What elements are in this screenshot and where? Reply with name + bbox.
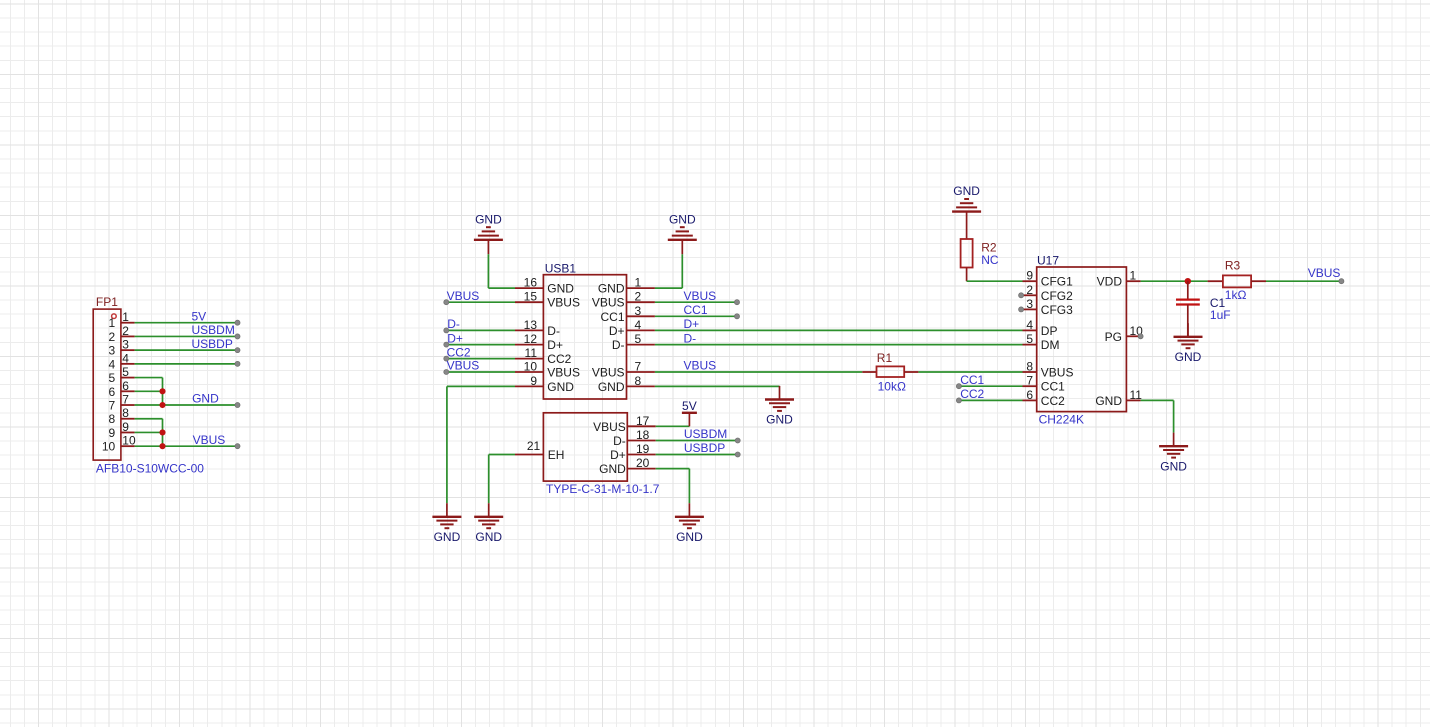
U17 pin 5 (DM): [1023, 332, 1060, 352]
svg-text:7: 7: [122, 393, 129, 407]
svg-text:6: 6: [122, 379, 129, 393]
open end dot VBUS: [1339, 279, 1344, 284]
wire FP1 pin2 USBDM: [135, 335, 238, 337]
ground above R2: [952, 184, 981, 239]
svg-text:GND: GND: [192, 392, 219, 406]
wire FP1 pins5-7 vertical: [162, 378, 164, 405]
svg-text:3: 3: [109, 344, 116, 358]
svg-text:CC2: CC2: [1041, 394, 1065, 408]
wire CC2 to USB1 pin11: [446, 358, 515, 360]
svg-text:19: 19: [636, 442, 650, 456]
connector USB1 (upper section): [515, 261, 655, 399]
wire FP1 pin3 USBDP: [135, 349, 238, 351]
svg-text:CFG2: CFG2: [1041, 289, 1073, 303]
svg-text:8: 8: [109, 412, 116, 426]
wire D+ to USB1 pin12: [446, 344, 515, 346]
wire USB1 pin18 USBDM: [656, 440, 738, 442]
open end dot VBUS: [235, 444, 240, 449]
svg-text:USBDP: USBDP: [192, 337, 233, 351]
svg-text:4: 4: [109, 357, 116, 371]
svg-text:D-: D-: [612, 338, 625, 352]
svg-text:2: 2: [1026, 283, 1033, 297]
svg-text:CC1: CC1: [600, 310, 624, 324]
open end dot USBDM: [235, 334, 240, 339]
svg-text:GND: GND: [766, 413, 793, 427]
svg-text:D-: D-: [684, 331, 697, 345]
power flag 5V: [682, 399, 697, 426]
wire FP1 pin7 GND: [135, 404, 238, 406]
wire USB1 pin1 to ground: [655, 254, 682, 288]
svg-text:AFB10-S10WCC-00: AFB10-S10WCC-00: [96, 462, 204, 476]
svg-text:USBDP: USBDP: [684, 441, 725, 455]
wire R1 to U17 VBUS: [918, 371, 1022, 373]
svg-text:5: 5: [635, 332, 642, 346]
U17 pin 4 (DP): [1023, 318, 1058, 338]
junction FP1 pin7: [159, 402, 165, 408]
svg-text:11: 11: [525, 346, 538, 360]
FP1 pin 6: [109, 379, 135, 399]
svg-text:10: 10: [122, 434, 136, 448]
svg-text:5V: 5V: [682, 399, 697, 413]
svg-text:GND: GND: [599, 462, 626, 476]
FP1 pin 1: [109, 310, 135, 330]
open end dot CC1: [956, 384, 961, 389]
FP1 pin 10: [102, 434, 136, 454]
svg-text:9: 9: [1026, 269, 1033, 283]
open end dot GND: [235, 402, 240, 407]
svg-text:5: 5: [1026, 332, 1033, 346]
svg-text:6: 6: [109, 385, 116, 399]
svg-text:16: 16: [524, 276, 538, 290]
wire CC1 to U17 pin7: [959, 385, 1023, 387]
svg-text:11: 11: [1130, 388, 1143, 402]
USB1 pin 13 (D-): [515, 318, 560, 338]
wire FP1 pin6: [135, 390, 163, 392]
svg-text:4: 4: [635, 318, 642, 332]
capacitor C1: [1176, 281, 1226, 337]
svg-text:5: 5: [109, 371, 116, 385]
wire USB1 pin4 D+ to U17 DP: [655, 329, 1023, 331]
USB1 pin 10 (VBUS): [515, 360, 580, 380]
svg-text:3: 3: [122, 338, 129, 352]
svg-text:3: 3: [635, 304, 642, 318]
svg-text:GND: GND: [434, 530, 461, 544]
svg-text:VBUS: VBUS: [684, 289, 717, 303]
open end dot USBDM: [735, 438, 740, 443]
wire USB1 pin3 CC1: [655, 315, 737, 317]
svg-text:CC2: CC2: [960, 387, 984, 401]
svg-text:GND: GND: [547, 282, 574, 296]
wire USB1 pin19 USBDP: [656, 454, 738, 456]
svg-text:VBUS: VBUS: [684, 359, 717, 373]
svg-text:GND: GND: [676, 530, 703, 544]
U17 pin 11 (GND): [1095, 388, 1142, 408]
svg-text:VBUS: VBUS: [447, 289, 480, 303]
wire FP1 pin4: [135, 363, 238, 365]
open end dot VBUS: [444, 369, 449, 374]
USB1 pin 1 (GND): [598, 276, 655, 296]
open end dot D+: [444, 342, 449, 347]
open end dot VBUS: [734, 300, 739, 305]
svg-text:20: 20: [636, 456, 650, 470]
svg-text:D+: D+: [610, 448, 626, 462]
svg-text:9: 9: [530, 374, 537, 388]
svg-text:CFG3: CFG3: [1041, 303, 1073, 317]
svg-text:DM: DM: [1041, 338, 1060, 352]
svg-text:GND: GND: [1095, 394, 1122, 408]
resistor R1: [862, 351, 918, 377]
svg-text:VBUS: VBUS: [193, 433, 226, 447]
junction FP1 pin10: [159, 443, 165, 449]
svg-text:DP: DP: [1041, 324, 1058, 338]
ground bottom-left-1: [432, 503, 461, 544]
svg-text:2: 2: [122, 324, 129, 338]
connector USB1 (shell section): [515, 413, 656, 481]
USB1 pin 16 (GND): [515, 276, 574, 296]
svg-text:7: 7: [109, 399, 116, 413]
junction FP1 pin6: [159, 388, 165, 394]
svg-text:12: 12: [524, 332, 538, 346]
svg-text:1: 1: [122, 310, 129, 324]
svg-text:GND: GND: [475, 530, 502, 544]
svg-text:VBUS: VBUS: [592, 366, 625, 380]
svg-text:GND: GND: [1175, 350, 1202, 364]
USB1 pin 8 (GND): [598, 374, 655, 394]
svg-text:VBUS: VBUS: [547, 366, 580, 380]
wire FP1 pin5: [135, 377, 163, 379]
ground far-right: [1159, 433, 1188, 474]
USB1 pin 4 (D+): [609, 318, 655, 338]
svg-text:8: 8: [635, 374, 642, 388]
USB1 pin 11 (CC2): [515, 346, 572, 366]
svg-text:USBDM: USBDM: [192, 323, 235, 337]
USB1 pin 7 (VBUS): [592, 360, 655, 380]
svg-text:PG: PG: [1105, 330, 1122, 344]
U17 pin 10 (PG): [1105, 324, 1144, 344]
ground top-left: [474, 212, 503, 254]
wire VBUS to USB1 pin15: [446, 301, 515, 303]
svg-text:GND: GND: [1160, 459, 1187, 473]
svg-text:NC: NC: [981, 253, 999, 267]
FP1 pin 4: [109, 351, 135, 371]
svg-text:VBUS: VBUS: [593, 420, 626, 434]
FP1 pin 2: [109, 324, 135, 344]
USB1 pin 19 (D+): [610, 442, 656, 462]
FP1 pin 9: [109, 420, 135, 440]
wire FP1 pin1 to 5V: [135, 322, 238, 324]
open end dot CC2: [956, 398, 961, 403]
svg-text:VBUS: VBUS: [1041, 366, 1074, 380]
svg-text:CC1: CC1: [960, 373, 984, 387]
USB1 pin 18 (D-): [613, 428, 656, 448]
FP1 pin 5: [109, 365, 135, 385]
wire VBUS to USB1 pin10: [446, 371, 515, 373]
svg-text:3: 3: [1026, 297, 1033, 311]
svg-text:D-: D-: [613, 434, 626, 448]
svg-text:VBUS: VBUS: [1308, 266, 1341, 280]
svg-text:GND: GND: [953, 184, 980, 198]
wire USB1 pin9 to ground: [447, 386, 515, 503]
svg-text:8: 8: [1026, 360, 1033, 374]
wire GND to USB1 pin16: [488, 254, 515, 288]
FP1 pin 8: [109, 406, 135, 426]
junction VDD/C1: [1185, 278, 1191, 284]
svg-text:10kΩ: 10kΩ: [878, 380, 906, 394]
svg-text:1kΩ: 1kΩ: [1225, 288, 1247, 302]
svg-text:1: 1: [1130, 269, 1137, 283]
wire R2 to U17 CFG1: [967, 268, 1023, 282]
svg-text:4: 4: [1026, 318, 1033, 332]
wire FP1 pins8-10 vertical: [162, 419, 164, 446]
FP1 pin 3: [109, 338, 135, 358]
svg-text:VBUS: VBUS: [447, 359, 480, 373]
U17 pin 6 (CC2): [1023, 388, 1066, 408]
svg-text:1uF: 1uF: [1210, 308, 1231, 322]
svg-text:1: 1: [109, 316, 116, 330]
open end dot CC2: [444, 356, 449, 361]
svg-text:GND: GND: [475, 212, 502, 226]
unconnected dot U17 CFG2: [1019, 293, 1024, 298]
wire USB1 pin20 to ground: [656, 469, 690, 504]
svg-text:CC1: CC1: [1041, 380, 1065, 394]
U17 pin 3 (CFG3): [1023, 297, 1074, 317]
svg-text:VBUS: VBUS: [547, 296, 580, 310]
U17 pin 8 (VBUS): [1023, 360, 1074, 380]
open end dot pin4: [235, 361, 240, 366]
U17 pin 2 (CFG2): [1023, 283, 1074, 303]
svg-text:EH: EH: [548, 448, 565, 462]
open end dot CC1: [734, 314, 739, 319]
svg-text:D-: D-: [447, 317, 460, 331]
wire D- to USB1 pin13: [446, 329, 515, 331]
wire USB1 pin21 EH to ground: [489, 455, 515, 504]
svg-text:7: 7: [1026, 374, 1033, 388]
wire U17 VDD to R3: [1141, 280, 1208, 282]
svg-text:R1: R1: [877, 351, 893, 365]
resistor R3: [1208, 259, 1266, 288]
unconnected dot U17 PG: [1138, 334, 1143, 339]
USB1 pin 3 (CC1): [600, 304, 654, 324]
svg-text:CC2: CC2: [547, 352, 571, 366]
USB1 pin 9 (GND): [515, 374, 574, 394]
IC U17: [1023, 253, 1144, 411]
U17 pin 1 (VDD): [1097, 269, 1141, 289]
svg-text:CC2: CC2: [447, 345, 471, 359]
wire FP1 pin10 VBUS: [135, 445, 238, 447]
USB1 pin 5 (D-): [612, 332, 655, 352]
wire FP1 pin9: [135, 431, 163, 433]
U17 pin 7 (CC1): [1023, 374, 1066, 394]
svg-text:10: 10: [524, 360, 538, 374]
svg-text:8: 8: [122, 406, 129, 420]
connector FP1: [93, 295, 136, 460]
USB1 pin 12 (D+): [515, 332, 563, 352]
svg-text:D+: D+: [684, 317, 700, 331]
wire CC2 to U17 pin6: [959, 399, 1023, 401]
svg-text:1: 1: [635, 276, 642, 290]
ground top-right: [668, 212, 697, 254]
svg-text:GND: GND: [598, 282, 625, 296]
svg-text:2: 2: [635, 290, 642, 304]
USB1 pin 17 (VBUS): [593, 414, 656, 434]
unconnected dot U17 CFG3: [1019, 307, 1024, 312]
svg-text:D+: D+: [609, 324, 625, 338]
wire FP1 pin8: [135, 418, 163, 420]
open end dot D-: [444, 328, 449, 333]
USB1 pin 15 (VBUS): [515, 290, 580, 310]
svg-text:6: 6: [1026, 388, 1033, 402]
svg-text:2: 2: [109, 330, 116, 344]
svg-text:TYPE-C-31-M-10-1.7: TYPE-C-31-M-10-1.7: [546, 482, 660, 496]
svg-text:VDD: VDD: [1097, 275, 1123, 289]
ground below C1: [1174, 323, 1203, 364]
wire USB1 pin8 to ground: [655, 385, 780, 387]
wire USB1 pin2 VBUS: [655, 301, 737, 303]
open end dot USBDP: [735, 452, 740, 457]
svg-text:GND: GND: [598, 380, 625, 394]
svg-text:7: 7: [635, 360, 642, 374]
svg-text:D-: D-: [547, 324, 560, 338]
svg-text:9: 9: [122, 420, 129, 434]
svg-text:USB1: USB1: [545, 261, 577, 275]
pin-1 indicator circle: [112, 314, 117, 319]
open end dot USBDP: [235, 348, 240, 353]
ground bottom-left-2: [474, 503, 503, 544]
svg-text:U17: U17: [1037, 253, 1059, 267]
ground mid: [765, 386, 794, 427]
svg-text:9: 9: [109, 426, 116, 440]
FP1 pin 7: [109, 393, 135, 413]
svg-text:CC1: CC1: [684, 303, 708, 317]
svg-text:CFG1: CFG1: [1041, 275, 1073, 289]
svg-text:5: 5: [122, 365, 129, 379]
svg-text:18: 18: [636, 428, 650, 442]
junction FP1 pin9: [159, 429, 165, 435]
svg-text:R3: R3: [1225, 259, 1241, 273]
svg-text:5V: 5V: [192, 309, 207, 323]
svg-text:D+: D+: [547, 338, 563, 352]
open end dot VBUS: [444, 300, 449, 305]
U17 pin 9 (CFG1): [1023, 269, 1074, 289]
svg-text:USBDM: USBDM: [684, 427, 727, 441]
svg-text:10: 10: [102, 440, 116, 454]
svg-text:4: 4: [122, 351, 129, 365]
svg-text:13: 13: [524, 318, 538, 332]
wire USB1 pin5 D- to U17 DM: [655, 344, 1023, 346]
USB1 pin 2 (VBUS): [592, 290, 655, 310]
resistor R2: [961, 239, 997, 268]
svg-text:15: 15: [524, 290, 538, 304]
svg-text:GND: GND: [547, 380, 574, 394]
wire U17 pin11 to ground: [1141, 400, 1174, 432]
USB1 pin 21 (EH): [515, 439, 564, 462]
ground bottom-right: [675, 503, 704, 544]
svg-text:17: 17: [636, 414, 650, 428]
wire R3 to VBUS: [1266, 280, 1341, 282]
svg-text:21: 21: [527, 439, 541, 453]
open end dot 5V: [235, 320, 240, 325]
svg-text:FP1: FP1: [96, 295, 118, 309]
svg-text:GND: GND: [669, 212, 696, 226]
svg-text:CH224K: CH224K: [1039, 413, 1084, 427]
USB1 pin 20 (GND): [599, 456, 656, 476]
wire USB1 pin17 to 5V flag: [656, 425, 690, 427]
svg-text:VBUS: VBUS: [592, 296, 625, 310]
wire USB1 pin7 VBUS to R1: [655, 371, 862, 373]
svg-text:D+: D+: [447, 331, 463, 345]
